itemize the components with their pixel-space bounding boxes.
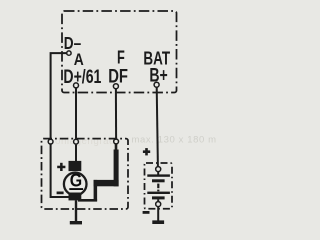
field winding lead stub <box>115 144 118 151</box>
battery terminal circle bottom <box>156 202 161 207</box>
wire DF down <box>115 89 117 140</box>
svg-text:max. 130 x 180 m: max. 130 x 180 m <box>132 134 217 145</box>
battery ground wire <box>157 207 159 222</box>
brush top (black) <box>69 161 82 171</box>
svg-text:G: G <box>70 171 82 191</box>
battery cell1 long plate <box>147 174 170 176</box>
plus sign generator <box>57 163 65 171</box>
terminal DF <box>113 84 118 89</box>
svg-text:D+/61: D+/61 <box>63 67 101 88</box>
battery minus sign <box>143 211 150 214</box>
regulator box U1 (dash-dot border) <box>62 11 177 93</box>
svg-text:onlagengrau: onlagengrau <box>55 136 115 147</box>
battery ground bar <box>152 220 164 224</box>
generator ground bar <box>70 221 82 224</box>
minus sign generator <box>57 192 64 195</box>
generator box outline <box>42 139 129 209</box>
wire D- horizontal and down <box>51 53 67 140</box>
terminal D+/61 <box>74 83 79 88</box>
generator terminal node D+ <box>74 139 79 144</box>
battery plus sign <box>143 148 150 155</box>
brush bottom (black) <box>69 193 82 201</box>
generator ground wire <box>75 200 77 223</box>
wire D+/61 down <box>75 88 77 140</box>
wire D- brush (left inner) <box>51 145 70 198</box>
battery cell2 long plate <box>147 192 170 194</box>
battery box outline <box>145 163 173 209</box>
generator terminal node DF <box>114 139 119 144</box>
generator terminal node D- <box>48 139 53 144</box>
field winding thick bar (DF to minus brush) <box>78 150 119 202</box>
battery mid dot <box>157 190 159 192</box>
battery stub bottom <box>157 199 159 201</box>
G underline <box>69 188 83 190</box>
battery cell2 short plate <box>152 196 165 199</box>
battery mid dash <box>157 184 159 189</box>
terminal D- <box>67 51 71 55</box>
wire D+ brush (middle inner) <box>75 145 77 162</box>
battery terminal circle top <box>156 167 161 172</box>
battery cell1 short plate <box>152 179 165 182</box>
armature circle G <box>64 173 87 196</box>
terminal B+ <box>154 82 159 87</box>
battery stub top <box>157 172 159 175</box>
wire B+ down to battery <box>157 87 158 167</box>
paper background <box>0 0 228 228</box>
